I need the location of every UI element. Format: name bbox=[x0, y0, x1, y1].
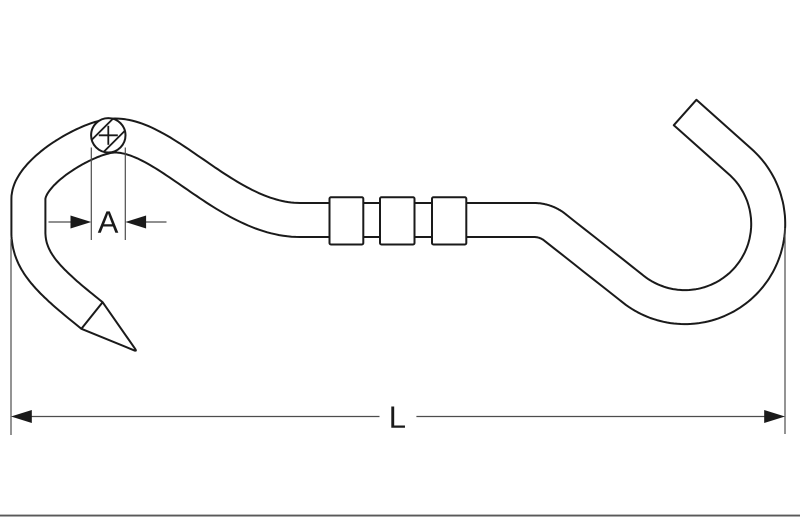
hook body outline bbox=[11, 100, 785, 351]
dim A extension lines bbox=[91, 148, 125, 241]
dim L line bbox=[11, 410, 785, 423]
dim A arrows bbox=[49, 216, 167, 229]
label L bbox=[391, 406, 405, 427]
tip chamfer line bbox=[81, 302, 102, 329]
center mark horizontal bbox=[99, 134, 118, 136]
grip band 2 bbox=[380, 197, 415, 244]
grip band 3 bbox=[432, 197, 466, 244]
grip band 1 bbox=[330, 197, 364, 244]
hatch line 2 bbox=[104, 131, 125, 152]
label A bbox=[98, 211, 119, 232]
hatch line 1 bbox=[92, 119, 113, 140]
dim L extension lines bbox=[11, 228, 785, 435]
center mark vertical bbox=[107, 126, 109, 145]
cross-section circle bbox=[91, 118, 125, 152]
bottom rule bbox=[0, 515, 800, 517]
